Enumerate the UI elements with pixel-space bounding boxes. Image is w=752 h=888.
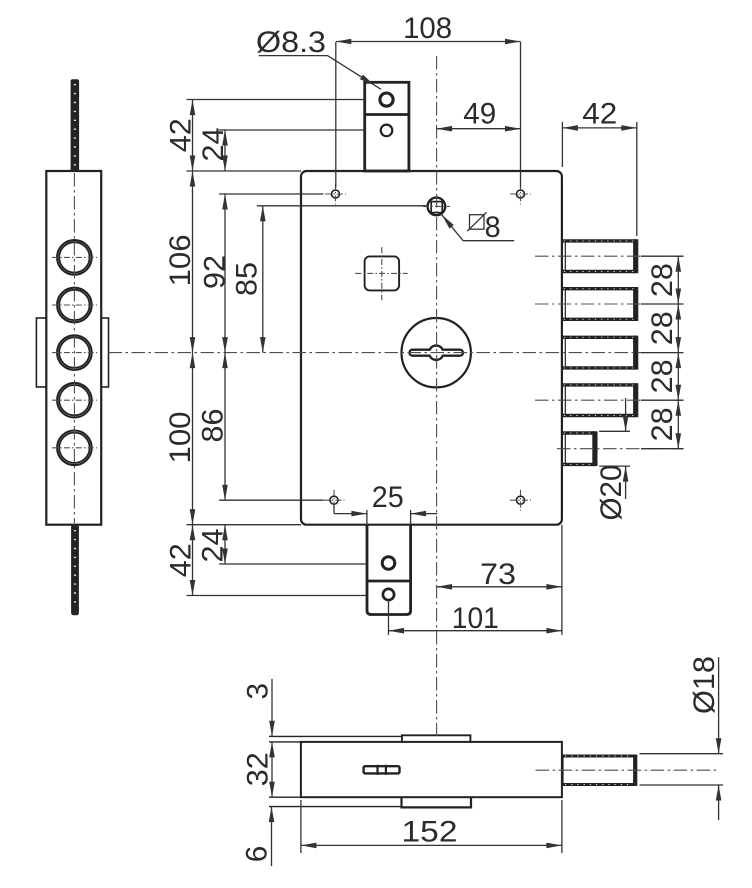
svg-text:49: 49 — [463, 98, 496, 131]
svg-text:152: 152 — [402, 816, 458, 849]
svg-text:28: 28 — [646, 311, 679, 345]
svg-text:86: 86 — [197, 409, 230, 443]
svg-text:42: 42 — [582, 98, 617, 131]
svg-text:Ø20: Ø20 — [595, 465, 628, 521]
svg-text:32: 32 — [242, 752, 275, 786]
svg-text:101: 101 — [452, 602, 499, 635]
svg-text:85: 85 — [231, 262, 264, 296]
svg-text:92: 92 — [199, 255, 232, 289]
svg-text:42: 42 — [165, 118, 198, 152]
svg-text:24: 24 — [197, 529, 230, 563]
svg-text:100: 100 — [164, 412, 197, 464]
svg-text:Ø8.3: Ø8.3 — [256, 26, 326, 59]
svg-text:28: 28 — [646, 407, 679, 441]
svg-text:108: 108 — [403, 12, 452, 45]
svg-text:28: 28 — [646, 359, 679, 393]
svg-text:8: 8 — [485, 211, 501, 244]
svg-text:6: 6 — [241, 846, 274, 863]
svg-text:73: 73 — [480, 558, 516, 591]
svg-text:28: 28 — [646, 263, 679, 297]
svg-text:42: 42 — [165, 543, 198, 577]
svg-text:Ø18: Ø18 — [688, 656, 721, 714]
svg-text:106: 106 — [164, 234, 197, 286]
svg-text:3: 3 — [241, 683, 274, 700]
svg-text:25: 25 — [372, 481, 404, 514]
svg-text:24: 24 — [197, 128, 230, 162]
